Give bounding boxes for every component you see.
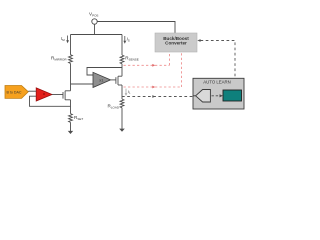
transistor Q2 (right NMOS) — [116, 76, 122, 85]
wire left branch middle (R_MIRROR to Q1 drain) — [70, 64, 72, 91]
svg-text:RMIRROR: RMIRROR — [51, 55, 67, 61]
wire right branch top — [121, 35, 123, 56]
node V_POS — [89, 11, 98, 24]
svg-text:Converter: Converter — [165, 41, 187, 46]
wire tag to A1 input — [28, 90, 36, 92]
dark dashed: load current to AUTO LEARN input — [122, 95, 193, 98]
svg-text:IL: IL — [128, 89, 131, 95]
svg-text:RSENSE: RSENSE — [125, 56, 139, 62]
wire left branch top — [70, 35, 72, 55]
svg-text:IS: IS — [127, 37, 130, 43]
current arrow I_L — [125, 89, 131, 96]
ground (right) — [119, 129, 125, 132]
wire supply rail — [71, 34, 123, 36]
current arrow I_S — [123, 36, 129, 44]
DAC symbol inside AUTO LEARN — [193, 90, 210, 103]
wire A1 feedback from Q1 source — [30, 96, 71, 106]
wire V_POS to Buck/Boost Converter — [97, 22, 175, 34]
transistor Q1 (left NMOS) — [63, 91, 71, 100]
AUTO LEARN block — [193, 78, 244, 109]
label tag B-to-DAC (orange flag) — [5, 86, 28, 99]
svg-text:RSET: RSET — [74, 115, 83, 121]
svg-text:RLOAD: RLOAD — [108, 104, 120, 110]
svg-text:AUTO LEARN: AUTO LEARN — [203, 80, 230, 85]
resistor R_MIRROR — [51, 55, 72, 64]
wire V_POS down to supply rail — [94, 24, 96, 34]
red dashed feedback: sense node to converter — [124, 52, 170, 66]
wire left node to buffer non-inverting input — [71, 83, 94, 85]
svg-text:VPOS: VPOS — [89, 11, 98, 17]
wire right branch middle (R_SENSE to Q2 drain) — [121, 64, 123, 76]
wire R_LOAD to ground — [121, 108, 123, 129]
op-amp A1 (red amplifier) — [36, 88, 52, 101]
wire A1 output to Q1 gate — [52, 94, 63, 96]
red dashed feedback: load node to converter — [124, 52, 182, 88]
wire Q2 source down to R_LOAD — [121, 85, 123, 99]
wire R_SET to ground — [70, 122, 72, 131]
op-amp U1 (gray buffer x1) — [93, 72, 111, 87]
dashed arrow DAC to register — [212, 94, 223, 97]
svg-text:IM: IM — [61, 36, 65, 42]
register block (teal) inside AUTO LEARN — [223, 90, 242, 101]
dark dashed: AUTO LEARN output to converter control input — [197, 39, 235, 78]
wire U1 output to Q2 gate — [111, 79, 116, 81]
svg-text:B to DAC: B to DAC — [7, 90, 22, 94]
current arrow I_M — [61, 36, 69, 44]
wire Q1 source down to R_SET node — [70, 100, 72, 114]
resistor R_LOAD — [108, 99, 124, 110]
ground (left) — [68, 131, 73, 134]
resistor R_SENSE — [120, 55, 139, 64]
wire feedback from sense node to buffer inverting input — [87, 68, 122, 76]
Buck/Boost Converter block — [155, 33, 197, 52]
resistor R_SET — [69, 114, 84, 123]
